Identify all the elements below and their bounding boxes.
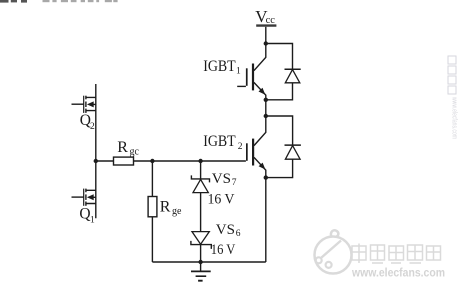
Q2 arrow (87, 101, 94, 107)
gate bus wire right segment (134, 160, 246, 162)
svg-text:Q: Q (79, 206, 90, 223)
wire Vcc to node A (265, 27, 267, 44)
wire node D to bottom rail (265, 178, 267, 262)
diode D1 cathode bar (285, 68, 301, 70)
svg-text:7: 7 (232, 178, 237, 188)
svg-text:2: 2 (238, 142, 243, 152)
wire node A to diode D1 branch (266, 44, 293, 69)
Q2 gate bar (83, 96, 84, 113)
wire D1 to node B (266, 83, 293, 100)
zener VS7 triangle (193, 179, 208, 192)
transistor Q1 leads (86, 190, 96, 203)
zener chain top junction dot (198, 159, 202, 163)
right edge rotated watermark (448, 56, 459, 139)
wire node C to diode D2 branch (266, 116, 293, 145)
wire node B to node C (265, 100, 267, 116)
Q2 channel bars (85, 96, 86, 100)
svg-text:cc: cc (266, 15, 276, 26)
Vcc rail bar (256, 24, 276, 26)
IGBT2 body bar (252, 139, 254, 166)
svg-text:16 V: 16 V (208, 192, 235, 208)
ground bars (191, 270, 211, 272)
IGBT1 body bar (252, 64, 254, 91)
zener VS6 triangle (192, 232, 209, 245)
IGBT2 emitter lead (254, 157, 266, 177)
diode D1 triangle (285, 70, 300, 83)
Q1 arrow (87, 194, 94, 200)
ground stem (200, 262, 202, 271)
svg-text:ge: ge (172, 206, 182, 217)
IGBT1 emitter arrow (259, 88, 266, 95)
gate bus left junction dot (94, 159, 98, 163)
IGBT1 emitter lead (254, 82, 266, 99)
svg-text:R: R (160, 199, 171, 216)
zener VS7 cathode bar (191, 175, 209, 182)
bottom rail wire (152, 261, 265, 263)
IGBT2 collector lead (254, 116, 266, 146)
svg-text:1: 1 (236, 67, 241, 77)
IGBT2 gate bar (246, 143, 248, 161)
svg-text:VS: VS (216, 222, 235, 238)
IGBT1 collector lead (254, 44, 266, 71)
node C junction dot (264, 114, 268, 118)
svg-text:VS: VS (212, 171, 231, 187)
ground junction dot (198, 260, 202, 264)
watermark CJK text 电子发烧友 (352, 244, 441, 264)
resistor Rge box (148, 197, 157, 217)
watermark logo circle (315, 230, 352, 273)
svg-text:www.elecfans.com: www.elecfans.com (451, 96, 459, 139)
svg-text:2: 2 (90, 122, 95, 132)
svg-text:gc: gc (130, 147, 140, 158)
svg-text:www.elecfans.com: www.elecfans.com (351, 268, 445, 280)
zener VS6 cathode bar (191, 241, 211, 249)
svg-text:IGBT: IGBT (203, 133, 236, 150)
IGBT1 gate lead (237, 85, 246, 87)
IGBT2 emitter arrow (259, 163, 266, 170)
svg-text:IGBT: IGBT (203, 58, 236, 75)
top edge cropped text remnants (0, 0, 118, 3)
diode D2 cathode bar (285, 144, 301, 146)
Q1 channel bars (85, 189, 86, 193)
svg-text:16 V: 16 V (211, 242, 236, 258)
IGBT1 gate bar (246, 68, 248, 86)
gate bus wire left segment (96, 160, 114, 162)
resistor Rgc box (114, 157, 134, 165)
transistor Q2 gate lead (72, 103, 84, 105)
wire rail up to Rge (151, 217, 153, 262)
wire zener chain (200, 161, 202, 262)
wire Rge to gate bus (151, 161, 153, 197)
svg-text:R: R (117, 139, 128, 156)
Rge top junction dot (150, 159, 154, 163)
node B junction dot (264, 98, 268, 102)
wire D2 to node D (266, 159, 293, 177)
Q1 gate bar (83, 189, 84, 206)
node D junction dot (264, 175, 268, 179)
node A junction dot (264, 41, 268, 45)
svg-text:1: 1 (90, 215, 95, 225)
svg-text:6: 6 (236, 229, 241, 239)
diode D2 triangle (285, 146, 300, 160)
left driver branch wire (95, 84, 97, 218)
transistor Q2 leads (86, 97, 96, 110)
transistor Q1 gate lead (72, 196, 84, 198)
